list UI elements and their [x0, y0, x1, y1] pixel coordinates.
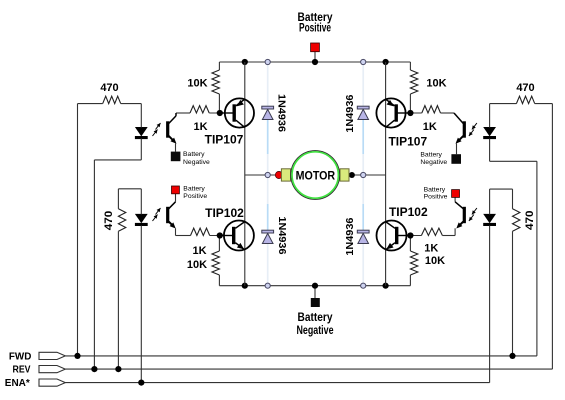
connector tag FWD	[39, 352, 65, 359]
svg-text:MOTOR: MOTOR	[296, 169, 336, 183]
battery positive symbol (U4 collector)	[452, 190, 460, 198]
wire: REV riser to 470 (right)	[551, 104, 553, 370]
transistor Q3 TIP102 (lower left NPN)	[224, 221, 254, 251]
battery positive symbol (U2 collector)	[172, 186, 180, 194]
wire: REV input line	[65, 368, 552, 370]
opto-transistor U4 (lower right)	[463, 207, 466, 223]
opto-transistor U1 (upper left)	[166, 121, 169, 137]
node: TIP107 right base	[407, 110, 413, 116]
svg-text:Battery: Battery	[298, 312, 334, 324]
resistor 470 (left vertical, REV to lower LED)	[117, 189, 119, 209]
wire: Q1 base lead	[220, 112, 234, 114]
LED D7 (upper right, REV-FWD)	[483, 127, 496, 136]
svg-text:FWD: FWD	[9, 351, 32, 363]
node: left column to motor node	[265, 172, 270, 177]
battery negative symbol (U1 emitter)	[171, 152, 181, 162]
battery negative symbol (U3 emitter)	[451, 154, 461, 164]
wire: Q2 base lead	[396, 112, 410, 114]
svg-text:1N4936: 1N4936	[276, 217, 288, 255]
LED D5 (upper left, FWD-REV)	[135, 127, 148, 136]
node: left column to top rail	[265, 59, 270, 64]
svg-text:470: 470	[516, 82, 534, 94]
wire: left bridge vertical	[244, 62, 246, 286]
wire: FWD riser to 470 (left)	[77, 104, 79, 356]
wire: right diode column rail-side segment (bottom)	[362, 243, 364, 286]
svg-text:TIP107: TIP107	[388, 135, 427, 149]
node: TIP102 left base	[217, 232, 223, 238]
motor terminal block right	[340, 169, 349, 181]
diode D2 1N4936 (upper right)	[357, 106, 369, 109]
node: left column to bottom rail	[265, 283, 270, 288]
wire: 470 vertical top jog (right)	[490, 188, 513, 190]
node: REV / LED D5 cathode	[91, 366, 97, 372]
svg-text:REV: REV	[13, 364, 31, 376]
wire: LED D8 cathode to ENA riser	[489, 226, 491, 383]
svg-text:Battery: Battery	[424, 186, 446, 193]
motor terminal red dot (left)	[275, 171, 282, 178]
svg-text:Battery: Battery	[183, 186, 205, 193]
svg-text:1K: 1K	[193, 121, 207, 133]
node: bottom rail / left TIP102 emitter	[242, 283, 248, 289]
node: ENA* / LED D6 cathode	[138, 380, 144, 386]
wire: right diode column rail-side segment (top)	[362, 62, 364, 107]
svg-text:1K: 1K	[192, 245, 206, 257]
wire: left diode column motor-span segment	[267, 154, 269, 204]
wire: right diode column motor-span segment	[362, 154, 364, 204]
node: top rail / battery positive tap	[312, 59, 318, 65]
node: top rail / right emitter	[383, 59, 389, 65]
svg-text:Negative: Negative	[183, 159, 210, 166]
wire: left diode column cathode lead (lower diode)	[267, 204, 269, 231]
svg-text:470: 470	[100, 82, 118, 94]
motor M1 body	[291, 151, 340, 200]
node: REV / left vertical 470	[115, 366, 121, 372]
wire: right diode column anode lead (upper diode)	[362, 119, 364, 154]
node: right column to bottom rail	[361, 283, 366, 288]
svg-text:Negative: Negative	[420, 159, 447, 166]
resistor 10K (upper left pull-up)	[218, 62, 220, 70]
battery negative terminal symbol (bottom)	[314, 286, 316, 298]
wire: left diode column rail-side segment (top)	[267, 62, 269, 107]
wire: ENA* input line	[65, 382, 489, 384]
resistor 10K (lower right pull-down)	[409, 236, 411, 252]
svg-text:TIP102: TIP102	[389, 205, 428, 219]
wire: Q3 base lead	[220, 235, 234, 237]
svg-text:1K: 1K	[423, 121, 437, 133]
diode D4 1N4936 (lower right)	[357, 230, 369, 233]
light arrows U1	[156, 123, 161, 130]
light arrows U2	[156, 208, 161, 215]
wire: LED D5 cathode drop	[140, 139, 142, 160]
svg-text:TIP107: TIP107	[205, 133, 244, 147]
wire: motor left lead	[245, 174, 282, 176]
svg-text:ENA*: ENA*	[5, 377, 31, 389]
svg-text:10K: 10K	[187, 259, 207, 271]
resistor 10K (lower left pull-down)	[218, 236, 220, 252]
wire: LED D7 cathode drop	[489, 139, 491, 162]
wire: right diode column cathode lead (lower diode)	[362, 204, 364, 231]
svg-text:Battery: Battery	[420, 151, 442, 158]
svg-text:1N4936: 1N4936	[344, 217, 356, 255]
svg-text:TIP102: TIP102	[205, 206, 244, 220]
node: top rail / left emitter	[242, 59, 248, 65]
svg-text:Positive: Positive	[183, 193, 207, 200]
opto-transistor U3 (upper right)	[463, 121, 466, 137]
svg-text:1K: 1K	[424, 243, 438, 255]
wire: 470 to LED D7 drop	[489, 104, 491, 128]
connector tag REV	[39, 366, 65, 373]
wire: LED D7 cathode to FWD jog	[490, 160, 537, 162]
node: FWD / right vertical 470	[509, 353, 515, 359]
connector tag ENA*	[39, 379, 65, 386]
diode D1 1N4936 (upper left)	[262, 106, 274, 109]
transistor Q1 TIP107 (upper left PNP)	[225, 98, 254, 127]
wire: 470 vertical top jog (left)	[118, 188, 141, 190]
node: right column to top rail	[361, 59, 366, 64]
light arrows U4	[469, 215, 474, 222]
LED D6 (lower left, REV-ENA)	[135, 214, 148, 223]
resistor 470 (top right, REV to LED)	[490, 103, 517, 105]
wire: motor right lead	[349, 174, 386, 176]
wire: battery negative bottom rail	[219, 285, 410, 287]
resistor 470 (top left, FWD to LED)	[78, 103, 103, 105]
node: right column to motor node	[361, 172, 366, 177]
wire: LED D8 anode drop	[489, 189, 491, 214]
battery positive terminal symbol (top)	[314, 52, 316, 62]
svg-text:Battery: Battery	[183, 151, 205, 158]
node: bottom rail / right TIP102 emitter	[383, 283, 389, 289]
resistor 1K (lower right base)	[397, 235, 422, 237]
wire: left diode column anode lead (upper diode)	[267, 119, 269, 154]
transistor Q4 TIP102 (lower right NPN)	[377, 221, 407, 251]
wire: LED D6 anode drop	[140, 189, 142, 215]
resistor 1K (lower left base)	[176, 235, 191, 237]
resistor 10K (upper right pull-up)	[409, 62, 411, 70]
motor terminal block left	[281, 169, 290, 181]
svg-text:Positive: Positive	[299, 22, 331, 34]
wire: LED D6 cathode to ENA riser	[140, 226, 142, 383]
wire: REV riser (left)	[93, 160, 95, 369]
wire: Q4 base lead	[396, 235, 411, 237]
svg-text:1N4936: 1N4936	[344, 94, 356, 132]
wire: 470 to LED D5 drop	[140, 104, 142, 128]
wire: left diode column rail-side segment (bottom)	[267, 243, 269, 286]
LED D8 (lower right, FWD-ENA)	[483, 214, 496, 223]
wire: FWD input line	[65, 355, 537, 357]
svg-text:1N4936: 1N4936	[275, 94, 287, 132]
wire: battery positive top rail	[219, 61, 410, 63]
svg-text:470: 470	[103, 211, 115, 231]
wire: LED D5 cathode to REV jog	[94, 159, 141, 161]
diode D3 1N4936 (lower left)	[262, 230, 274, 233]
resistor 1K (upper right base)	[397, 112, 422, 114]
svg-text:10K: 10K	[187, 78, 207, 90]
motor terminal black dot (right)	[349, 172, 355, 178]
node: FWD / left 470	[74, 353, 80, 359]
svg-text:10K: 10K	[425, 255, 445, 267]
svg-text:10K: 10K	[426, 78, 446, 90]
node: TIP102 right base	[407, 232, 413, 238]
svg-text:470: 470	[524, 211, 536, 231]
resistor 1K (upper left base)	[176, 112, 190, 114]
node: bottom rail / battery negative tap	[312, 283, 318, 289]
svg-text:Positive: Positive	[424, 194, 448, 201]
light arrows U3	[469, 130, 474, 137]
node: TIP107 left base	[217, 110, 223, 116]
resistor 470 (right vertical, FWD to lower LED)	[512, 189, 514, 209]
svg-text:Negative: Negative	[297, 325, 334, 337]
transistor Q2 TIP107 (upper right PNP)	[376, 98, 405, 127]
wire: right bridge vertical	[385, 62, 387, 286]
wire: FWD riser (right)	[536, 161, 538, 356]
opto-transistor U2 (lower left)	[166, 207, 169, 223]
